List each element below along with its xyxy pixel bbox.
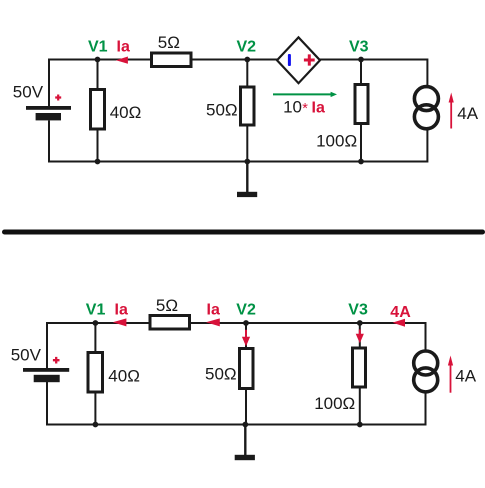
wire left rail lower [46, 382, 48, 425]
dependent source U1 (diamond) [277, 37, 320, 83]
svg-text:*: * [302, 101, 308, 117]
svg-text:50V: 50V [11, 345, 42, 364]
svg-text:Ia: Ia [207, 302, 220, 319]
node V3 [358, 57, 364, 63]
svg-text:Ia: Ia [115, 302, 128, 319]
wire right rail upper [426, 59, 428, 87]
ground (bottom circuit) [244, 425, 246, 456]
resistor 40ohm [91, 90, 105, 130]
svg-text:100Ω: 100Ω [314, 394, 355, 413]
wire left rail upper (to battery) [48, 59, 50, 107]
svg-text:4A: 4A [457, 104, 478, 123]
wire 100ohm branch (bottom) [359, 323, 361, 425]
svg-text:V1: V1 [88, 38, 108, 55]
node bottom under 40ohm [95, 159, 101, 165]
resistor 100ohm (bottom) [353, 348, 366, 387]
svg-text:V1: V1 [86, 302, 106, 319]
ground (top circuit) [246, 162, 248, 193]
wire 100ohm branch [360, 60, 362, 162]
node bottom under 100ohm [358, 159, 364, 165]
current arrow 4A (left) [393, 319, 406, 327]
resistor 50ohm [241, 87, 255, 125]
svg-text:Ia: Ia [117, 38, 130, 55]
node V1 [95, 57, 101, 63]
wire 50ohm branch [246, 60, 248, 162]
battery plus sign (bottom) [53, 357, 60, 364]
svg-text:50Ω: 50Ω [205, 364, 237, 383]
wire top rail (bottom circuit) [47, 322, 426, 324]
wire left rail upper (to battery) [46, 322, 48, 368]
node bottom under 50ohm [244, 159, 250, 165]
node bottom under 40ohm (bottom circuit) [93, 422, 99, 428]
down arrow at V3 [359, 330, 361, 336]
svg-text:100Ω: 100Ω [316, 132, 357, 151]
current source I1 (bottom) [414, 351, 438, 375]
battery 50V (bottom) [23, 368, 69, 382]
wire top rail [49, 59, 427, 61]
wire bottom rail [48, 161, 427, 163]
resistor 40ohm (bottom) [88, 353, 103, 393]
svg-text:10: 10 [283, 97, 302, 116]
wire left rail lower (battery to bottom) [48, 121, 50, 162]
resistor 100ohm [355, 85, 368, 124]
node V3 (bottom circuit) [357, 320, 363, 326]
wire 50ohm branch (bottom) [245, 323, 247, 425]
down arrow at V2 [245, 330, 247, 338]
svg-text:V3: V3 [348, 302, 368, 319]
node V1 (bottom circuit) [93, 320, 99, 326]
dependent source I mark [288, 54, 291, 66]
battery 50V [26, 106, 71, 120]
wire 40ohm branch (bottom) [94, 323, 96, 425]
separator bar [2, 230, 485, 235]
wire right rail lower [425, 393, 427, 426]
battery plus sign [55, 95, 61, 101]
svg-text:Ia: Ia [312, 99, 325, 116]
dependent source plus mark [304, 54, 315, 65]
node V2 (bottom circuit) [243, 320, 249, 326]
current arrow Ia first (left) [113, 318, 127, 326]
svg-text:50Ω: 50Ω [206, 100, 238, 119]
node V2 [244, 57, 250, 63]
controlled current arrow (green) [273, 93, 331, 95]
current source arrow 4A up (bottom) [450, 364, 452, 393]
svg-text:5Ω: 5Ω [156, 296, 178, 315]
svg-text:40Ω: 40Ω [110, 103, 142, 122]
resistor 5ohm (top) [152, 53, 192, 67]
svg-text:40Ω: 40Ω [108, 366, 140, 385]
svg-text:5Ω: 5Ω [158, 33, 180, 52]
node bottom under 50ohm (bottom circuit) [242, 422, 248, 428]
svg-text:V2: V2 [236, 302, 256, 319]
node bottom under 100ohm (bottom circuit) [357, 422, 363, 428]
current arrow Ia (left) [116, 57, 128, 64]
current source arrow 4A (up) [450, 100, 452, 129]
wire 40ohm branch [97, 60, 99, 162]
resistor 5ohm (bottom) [150, 316, 190, 330]
resistor 50ohm (bottom) [240, 349, 254, 389]
svg-text:50V: 50V [13, 83, 44, 102]
wire right rail upper [425, 322, 427, 350]
svg-text:V3: V3 [349, 38, 369, 55]
svg-text:4A: 4A [390, 304, 411, 321]
current arrow Ia second (left) [206, 318, 220, 326]
svg-text:V2: V2 [237, 38, 257, 55]
current source I1 (top) [414, 87, 438, 111]
wire right rail lower [426, 130, 428, 163]
wire bottom rail (bottom circuit) [46, 424, 426, 426]
svg-text:4A: 4A [455, 366, 476, 385]
